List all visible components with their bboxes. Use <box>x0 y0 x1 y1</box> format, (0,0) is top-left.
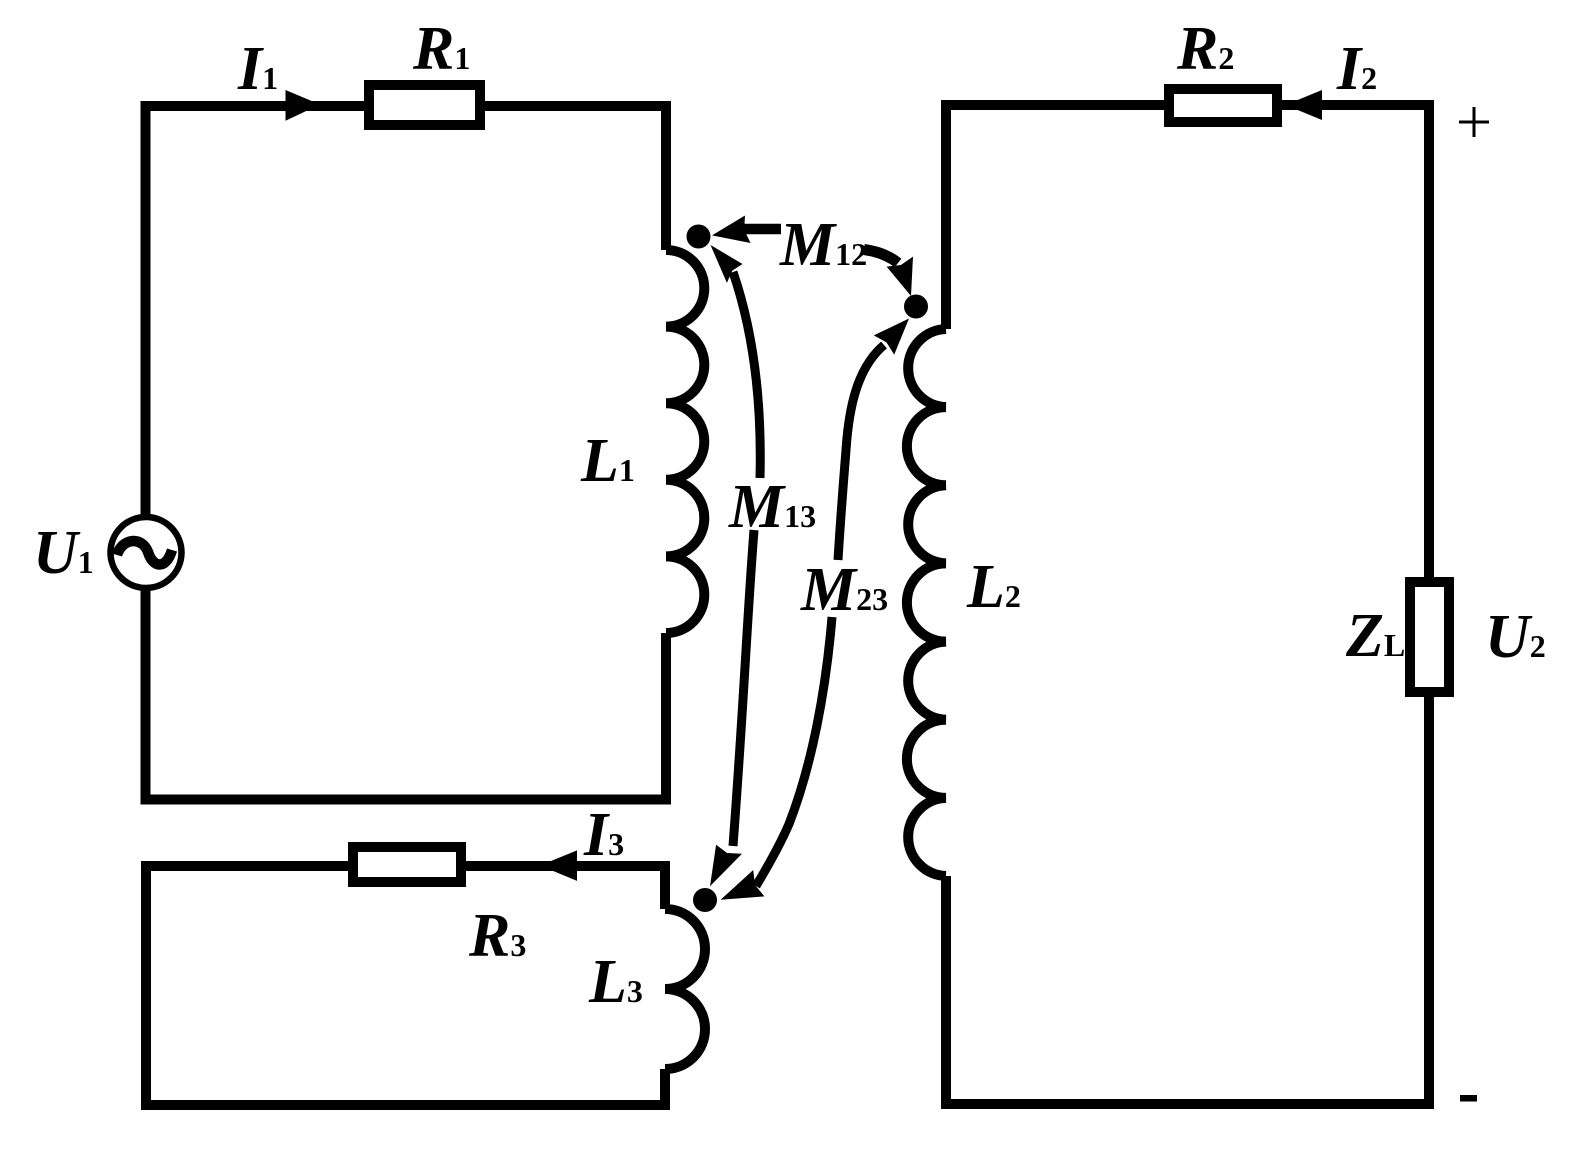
svg-text:M23: M23 <box>800 556 888 624</box>
svg-text:ZL: ZL <box>1345 602 1405 670</box>
svg-text:L1: L1 <box>580 427 635 495</box>
svg-text:I2: I2 <box>1336 35 1377 103</box>
svg-text:R1: R1 <box>412 15 470 83</box>
svg-text:L2: L2 <box>966 553 1021 621</box>
svg-text:U2: U2 <box>1485 603 1546 671</box>
svg-text:U1: U1 <box>33 519 94 587</box>
svg-text:L3: L3 <box>588 948 643 1016</box>
svg-text:M12: M12 <box>779 211 867 279</box>
svg-text:R2: R2 <box>1176 15 1234 83</box>
svg-text:I1: I1 <box>237 35 278 103</box>
svg-text:I3: I3 <box>583 801 624 869</box>
svg-text:R3: R3 <box>468 902 526 970</box>
svg-text:M13: M13 <box>728 473 816 541</box>
